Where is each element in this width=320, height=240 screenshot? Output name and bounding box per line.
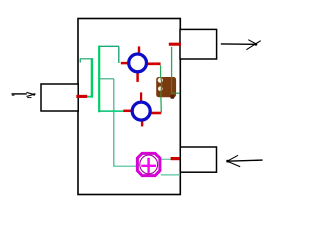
junction: [113, 110, 115, 112]
wire to mixer M1 west: [99, 46, 119, 63]
wire mixer column through U1: [160, 65, 163, 112]
mixer M1: [121, 46, 161, 82]
arrow into LO port: [226, 155, 262, 167]
oscillator OSC1: [137, 153, 160, 175]
arrow into IN port: [12, 92, 36, 97]
wire bus riser: [98, 46, 100, 113]
port box IN (left): [41, 84, 78, 111]
wire oscillator out top: [161, 158, 171, 160]
port box LO (bottom right): [180, 147, 216, 172]
port box OUT (top right): [180, 29, 217, 59]
wire to mixer M2 west: [99, 110, 123, 112]
wire U1 to output stub: [172, 47, 180, 93]
wire input top run: [80, 59, 93, 63]
subcircuit boundary box: [78, 19, 180, 195]
wire input riser: [87, 58, 93, 97]
pin stub LO port: [171, 157, 180, 160]
wire oscillator out bottom: [161, 174, 180, 176]
wire LO column: [113, 79, 115, 166]
mixer M2: [123, 92, 161, 126]
wire branch to LO column: [100, 78, 114, 80]
pin stub input port: [76, 95, 87, 98]
wire to oscillator west: [113, 165, 136, 167]
component U1 (brown block): [156, 77, 176, 99]
arrow out of OUT port: [221, 40, 261, 50]
pin stub output port: [169, 43, 181, 46]
